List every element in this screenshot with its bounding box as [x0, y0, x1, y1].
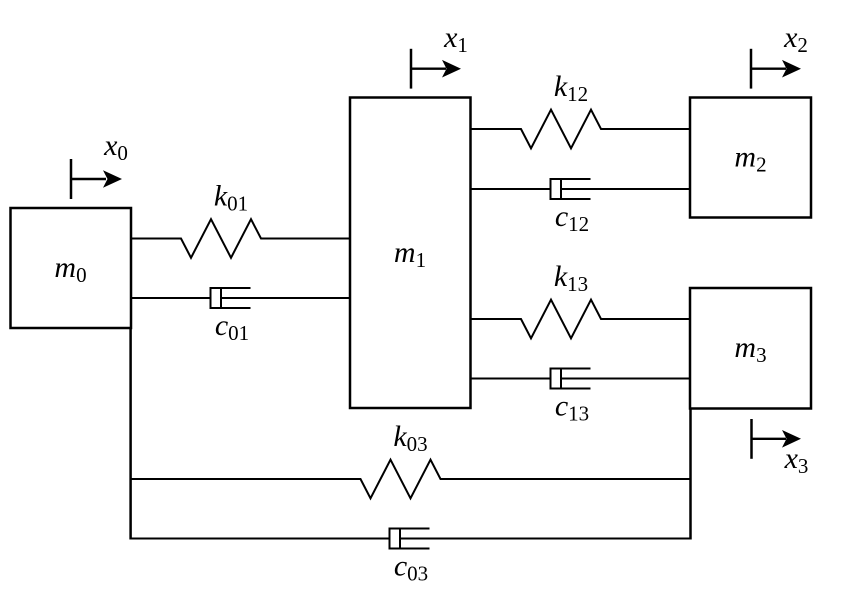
damper c12 — [471, 179, 691, 199]
label c12 — [555, 200, 589, 236]
damper c01 — [131, 288, 350, 308]
label k01 — [214, 180, 248, 216]
spring k03 — [131, 460, 691, 499]
label c13 — [555, 390, 589, 426]
mass m3 — [690, 288, 811, 409]
coordinate arrow x1 — [411, 49, 461, 89]
wire from m3 down to k03/c03 — [689, 408, 692, 540]
mass m1 — [350, 98, 471, 409]
coordinate arrow x3 — [752, 419, 802, 459]
label c03 — [394, 550, 428, 586]
label k03 — [393, 420, 427, 456]
spring k01 — [131, 219, 350, 258]
label x2 — [783, 21, 808, 57]
mass m0 — [11, 208, 132, 328]
label k12 — [554, 70, 588, 106]
coordinate arrow x2 — [751, 49, 801, 89]
label k13 — [554, 260, 588, 296]
label x1 — [443, 21, 468, 57]
damper c03 — [131, 529, 691, 549]
label c01 — [215, 309, 249, 345]
spring k12 — [471, 110, 691, 149]
damper c13 — [471, 369, 691, 389]
spring k13 — [471, 300, 691, 339]
coordinate arrow x0 — [71, 159, 122, 199]
label x0 — [103, 129, 128, 165]
mass m2 — [690, 98, 811, 218]
wire from m0 down to k03/c03 — [129, 328, 132, 540]
label x3 — [784, 442, 809, 478]
